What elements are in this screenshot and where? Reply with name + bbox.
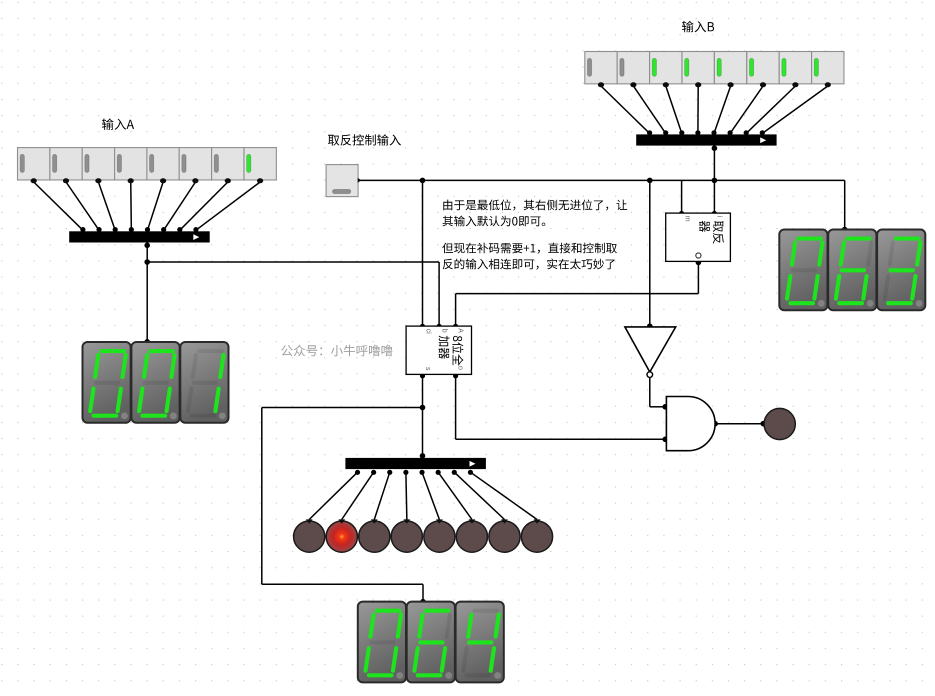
label 取反控制输入 xyxy=(328,134,401,145)
bus splitter A xyxy=(69,231,210,242)
wire adder CO to AND gate xyxy=(453,373,665,439)
input switch A bit7 xyxy=(18,148,50,184)
node bus A junction xyxy=(144,259,150,265)
wire splitter S bit3 to LED xyxy=(419,470,439,520)
wire input A bit0 to splitter xyxy=(193,182,260,232)
LED bit1 (off) xyxy=(489,519,520,552)
wire splitter S bit0 to LED xyxy=(468,470,537,520)
LED bit2 (off) xyxy=(456,519,487,552)
wire input B bit2 to splitter xyxy=(728,86,764,135)
input switch B bit5 xyxy=(650,52,682,88)
wire bus B to inverter box xyxy=(712,145,718,213)
svg-text:m: m xyxy=(683,216,690,222)
wire input A bit2 to splitter xyxy=(161,182,195,232)
control input switch xyxy=(326,165,361,197)
node inverter box pin m xyxy=(679,211,684,216)
input switch A bit6 xyxy=(50,148,82,184)
label 输入B xyxy=(682,21,714,33)
wire splitter S bit5 to LED xyxy=(374,470,392,520)
wire splitter S bit6 to LED xyxy=(342,470,376,520)
svg-text:s: s xyxy=(424,367,431,371)
wire splitter S bit1 to LED xyxy=(452,470,505,520)
LED bit3 (off) xyxy=(424,519,455,552)
note line 2 xyxy=(443,216,546,227)
svg-text:A: A xyxy=(456,328,463,333)
node adder pin B xyxy=(437,324,442,329)
input switch A bit0 xyxy=(244,148,276,184)
node adder pin CI xyxy=(420,324,425,329)
inverter box U1 取反器 xyxy=(666,213,731,261)
input switch A bit2 xyxy=(179,148,211,184)
wire bus A to display and adder B xyxy=(144,243,439,342)
wire AND output to LED xyxy=(712,421,764,427)
wire inverter box output to adder A xyxy=(456,260,702,327)
input switch B bit4 xyxy=(682,52,714,88)
note line 4 xyxy=(443,259,615,270)
adder U2 8位全加器 xyxy=(406,326,471,374)
label 8位全加器 xyxy=(439,336,464,366)
node display B input xyxy=(842,227,848,233)
7-segment display S value 064 xyxy=(358,602,504,683)
7-segment display A value 001 xyxy=(83,342,229,423)
node display A input xyxy=(144,339,150,345)
node adder pin A xyxy=(453,324,458,329)
input switch A bit4 xyxy=(115,148,147,184)
node AND input 1 xyxy=(662,404,668,410)
wire input A bit6 to splitter xyxy=(66,182,102,232)
wire input B bit4 to splitter xyxy=(695,86,700,135)
svg-text:o: o xyxy=(456,366,463,370)
LED bit6 (on, red) xyxy=(326,519,357,552)
node AND input 2 xyxy=(662,437,668,443)
label 输入A xyxy=(102,118,134,129)
node control-NOT junction xyxy=(647,178,653,184)
LED bit4 (off) xyxy=(391,519,422,552)
label 取反器 xyxy=(699,221,724,244)
input switch A bit5 xyxy=(82,148,114,184)
node splitter input xyxy=(420,453,426,459)
wire input B bit6 to splitter xyxy=(633,86,668,135)
LED bit5 (off) xyxy=(359,519,390,552)
input switch B bit2 xyxy=(747,52,779,88)
wire input B bit7 to splitter xyxy=(601,86,652,135)
LED bit0 (off) xyxy=(521,519,552,552)
wire control net xyxy=(358,180,845,326)
wire input B bit3 to splitter xyxy=(711,86,730,135)
svg-text:ci: ci xyxy=(424,329,431,335)
wire NOT output to AND gate xyxy=(650,377,665,407)
note line 3 xyxy=(442,243,617,254)
wire splitter S bit4 to LED xyxy=(403,470,408,520)
node NOT gate input xyxy=(647,323,653,329)
input switch B bit7 xyxy=(585,52,617,88)
wire splitter S bit2 to LED xyxy=(436,470,472,520)
node LED input xyxy=(761,421,767,427)
wire input A bit4 to splitter xyxy=(129,182,134,232)
svg-text:b: b xyxy=(441,329,448,333)
bus splitter B xyxy=(636,134,776,145)
AND gate xyxy=(666,397,715,451)
wire splitter S bit7 to LED xyxy=(309,470,360,520)
wire input A bit5 to splitter xyxy=(98,182,117,232)
node control-busB junction xyxy=(712,178,718,184)
node display S input xyxy=(420,599,426,605)
output LED (off) xyxy=(764,408,795,439)
input switch B bit6 xyxy=(617,52,649,88)
note line 1 xyxy=(443,200,627,211)
node S junction xyxy=(420,405,426,411)
watermark 公众号：小牛呼噜噜 xyxy=(281,345,392,357)
node control-CI junction xyxy=(420,178,426,184)
input switch B bit3 xyxy=(714,52,746,88)
7-segment display B value 063 xyxy=(779,230,925,311)
input switch B bit1 xyxy=(779,52,811,88)
wire input A bit3 to splitter xyxy=(145,182,163,232)
LED bit7 (off) xyxy=(294,519,325,552)
bus splitter S (output) xyxy=(345,458,486,469)
wire input B bit1 to splitter xyxy=(744,86,796,135)
wire adder S to splitter and display xyxy=(262,373,425,602)
NOT gate xyxy=(625,327,676,378)
input switch B bit0 xyxy=(812,52,844,88)
input switch A bit3 xyxy=(147,148,179,184)
wire input A bit7 to splitter xyxy=(34,182,86,232)
node inverter box pin i xyxy=(712,211,717,216)
input switch A bit1 xyxy=(212,148,244,184)
wire input B bit5 to splitter xyxy=(666,86,685,135)
wire input B bit0 to splitter xyxy=(760,86,828,135)
wire input A bit1 to splitter xyxy=(177,182,228,232)
